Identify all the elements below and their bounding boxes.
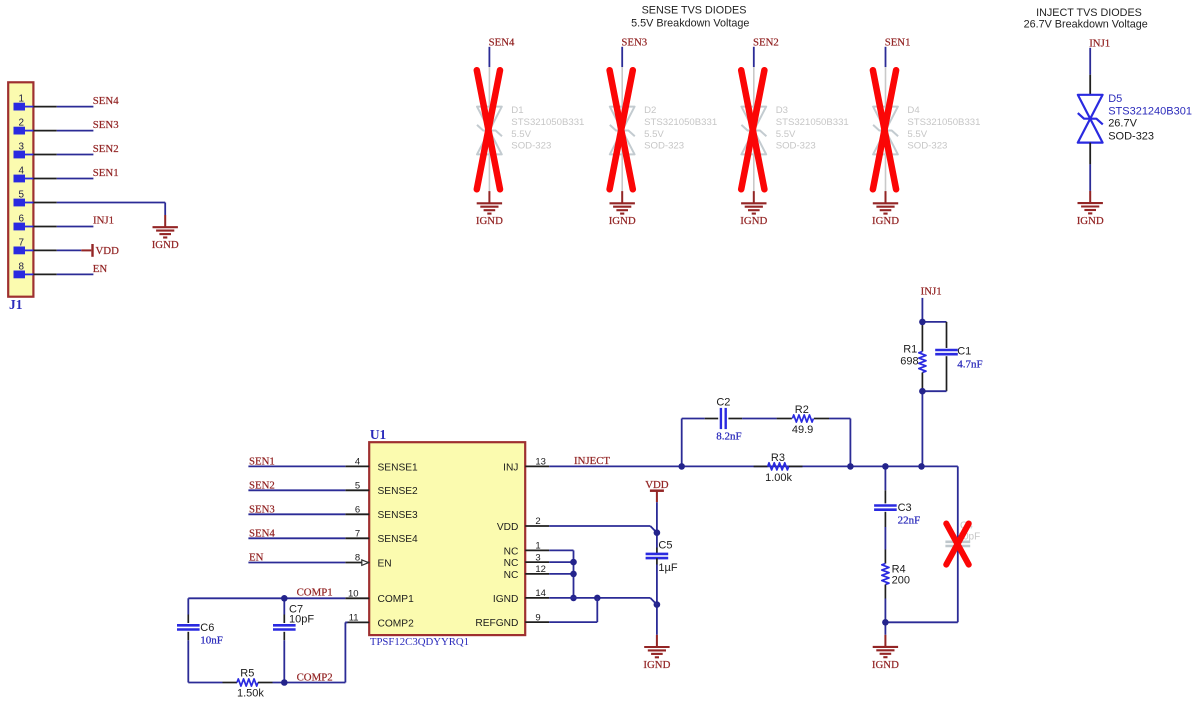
- svg-text:5.5V: 5.5V: [907, 129, 927, 140]
- svg-text:SEN3: SEN3: [621, 36, 647, 48]
- svg-text:VDD: VDD: [645, 479, 669, 491]
- svg-text:3: 3: [19, 142, 25, 153]
- svg-text:COMP2: COMP2: [297, 671, 333, 683]
- svg-text:8.2nF: 8.2nF: [716, 431, 741, 443]
- svg-text:NC: NC: [504, 570, 519, 581]
- svg-text:TPSF12C3QDYYRQ1: TPSF12C3QDYYRQ1: [370, 636, 469, 648]
- svg-text:7: 7: [19, 237, 25, 248]
- svg-text:SEN4: SEN4: [249, 527, 275, 539]
- svg-text:J1: J1: [9, 297, 22, 312]
- svg-text:C2: C2: [716, 396, 730, 408]
- svg-text:SEN1: SEN1: [885, 36, 911, 48]
- svg-text:22nF: 22nF: [898, 515, 921, 527]
- svg-text:SEN1: SEN1: [249, 455, 275, 467]
- svg-text:SEN4: SEN4: [93, 95, 119, 107]
- svg-text:SOD-323: SOD-323: [907, 140, 947, 151]
- svg-text:COMP1: COMP1: [297, 586, 333, 598]
- svg-text:SEN2: SEN2: [753, 36, 779, 48]
- svg-text:IGND: IGND: [476, 215, 503, 227]
- svg-text:EN: EN: [93, 263, 108, 275]
- svg-text:1.00k: 1.00k: [765, 472, 792, 484]
- svg-text:IGND: IGND: [609, 215, 636, 227]
- svg-text:4.7nF: 4.7nF: [957, 358, 982, 370]
- svg-text:SENSE3: SENSE3: [378, 510, 419, 521]
- svg-text:IGND: IGND: [643, 659, 670, 671]
- svg-text:C1: C1: [957, 346, 971, 358]
- svg-text:STS321050B331: STS321050B331: [644, 117, 717, 128]
- svg-text:SOD-323: SOD-323: [776, 140, 816, 151]
- svg-text:2: 2: [19, 118, 25, 129]
- svg-text:1µF: 1µF: [658, 562, 677, 574]
- svg-text:INJECT: INJECT: [574, 455, 610, 467]
- svg-text:SENSE4: SENSE4: [378, 534, 419, 545]
- svg-text:R5: R5: [240, 667, 254, 679]
- svg-text:VDD: VDD: [497, 522, 519, 533]
- svg-text:NC: NC: [504, 546, 519, 557]
- svg-text:U1: U1: [370, 427, 386, 442]
- svg-text:SEN4: SEN4: [489, 36, 515, 48]
- svg-text:STS321050B331: STS321050B331: [907, 117, 980, 128]
- svg-text:1: 1: [19, 94, 25, 105]
- svg-text:4: 4: [19, 166, 25, 177]
- svg-text:EN: EN: [378, 558, 392, 569]
- svg-text:IGND: IGND: [493, 594, 518, 605]
- svg-text:REFGND: REFGND: [475, 618, 518, 629]
- svg-text:SEN2: SEN2: [93, 143, 119, 155]
- svg-text:NC: NC: [504, 558, 519, 569]
- svg-text:STS321050B331: STS321050B331: [776, 117, 849, 128]
- svg-text:SENSE2: SENSE2: [378, 486, 419, 497]
- svg-text:R1: R1: [903, 343, 917, 355]
- svg-text:10nF: 10nF: [200, 634, 223, 646]
- svg-text:1.50k: 1.50k: [237, 688, 264, 700]
- svg-text:IGND: IGND: [740, 215, 767, 227]
- svg-text:C6: C6: [200, 622, 214, 634]
- svg-text:5.5V: 5.5V: [644, 129, 664, 140]
- svg-text:5: 5: [19, 190, 25, 201]
- svg-text:C5: C5: [658, 540, 672, 552]
- svg-text:200: 200: [892, 575, 910, 587]
- svg-text:D3: D3: [776, 105, 788, 116]
- svg-text:698: 698: [900, 355, 918, 367]
- svg-text:49.9: 49.9: [792, 424, 813, 436]
- svg-text:SOD-323: SOD-323: [644, 140, 684, 151]
- svg-text:C3: C3: [898, 502, 912, 514]
- svg-text:EN: EN: [249, 552, 264, 564]
- svg-text:SOD-323: SOD-323: [511, 140, 551, 151]
- svg-text:SEN1: SEN1: [93, 167, 119, 179]
- svg-text:SEN3: SEN3: [249, 503, 275, 515]
- svg-text:SEN2: SEN2: [249, 479, 275, 491]
- svg-text:SOD-323: SOD-323: [1108, 130, 1154, 142]
- svg-text:5.5V: 5.5V: [776, 129, 796, 140]
- svg-text:D1: D1: [511, 105, 523, 116]
- svg-text:STS321240B301: STS321240B301: [1108, 105, 1192, 117]
- svg-text:COMP2: COMP2: [378, 618, 415, 629]
- svg-text:5.5V Breakdown Voltage: 5.5V Breakdown Voltage: [631, 17, 749, 29]
- svg-text:IGND: IGND: [1077, 215, 1104, 227]
- svg-text:SENSE1: SENSE1: [378, 462, 419, 473]
- svg-text:10pF: 10pF: [289, 613, 314, 625]
- svg-text:INJ: INJ: [503, 462, 518, 473]
- svg-text:D2: D2: [644, 105, 656, 116]
- svg-text:STS321050B331: STS321050B331: [511, 117, 584, 128]
- svg-text:R3: R3: [771, 452, 785, 464]
- svg-text:26.7V Breakdown Voltage: 26.7V Breakdown Voltage: [1024, 18, 1148, 30]
- svg-text:26.7V: 26.7V: [1108, 117, 1137, 129]
- svg-text:SENSE TVS DIODES: SENSE TVS DIODES: [642, 4, 747, 16]
- svg-text:R2: R2: [795, 404, 809, 416]
- svg-text:SEN3: SEN3: [93, 119, 119, 131]
- svg-text:6: 6: [19, 214, 25, 225]
- svg-text:IGND: IGND: [872, 659, 899, 671]
- svg-text:IGND: IGND: [872, 215, 899, 227]
- svg-text:VDD: VDD: [96, 245, 120, 257]
- svg-text:8: 8: [19, 261, 25, 272]
- svg-text:INJ1: INJ1: [921, 286, 942, 298]
- svg-text:D5: D5: [1108, 93, 1122, 105]
- svg-text:IGND: IGND: [152, 239, 179, 251]
- svg-text:INJ1: INJ1: [1089, 37, 1110, 49]
- svg-text:5.5V: 5.5V: [511, 129, 531, 140]
- svg-text:D4: D4: [907, 105, 920, 116]
- svg-text:INJ1: INJ1: [93, 215, 114, 227]
- svg-text:COMP1: COMP1: [378, 594, 415, 605]
